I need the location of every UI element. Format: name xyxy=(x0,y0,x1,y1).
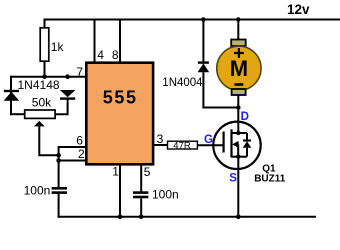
op-amp U1 555 timer body xyxy=(86,63,153,165)
svg-text:8: 8 xyxy=(112,48,119,62)
svg-text:100n: 100n xyxy=(152,188,179,202)
Q1 body diode xyxy=(243,133,252,157)
svg-text:5: 5 xyxy=(144,165,151,179)
resistor R1 1k xyxy=(40,28,49,61)
wire left branch vertical xyxy=(10,76,12,116)
capacitor C2 100n xyxy=(133,193,148,197)
node junction D2/row xyxy=(65,74,70,79)
node source stub junction xyxy=(236,155,240,159)
svg-text:1N4004: 1N4004 xyxy=(162,77,203,89)
transistor Q1 BUZ11 mosfet body circle xyxy=(213,122,260,169)
wire pin7 row horizontal xyxy=(10,76,86,78)
motor M1 bottom terminal xyxy=(232,89,246,95)
wire R1 bottom to node row xyxy=(44,61,46,76)
svg-text:1N4148: 1N4148 xyxy=(18,78,60,92)
node C2/rail junction xyxy=(139,214,144,219)
wire C2 bottom to ground rail xyxy=(140,198,142,216)
Q1 gate bar xyxy=(223,132,225,153)
svg-text:BUZ11: BUZ11 xyxy=(254,173,286,184)
svg-text:4: 4 xyxy=(97,48,104,62)
motor + mark xyxy=(234,48,244,58)
wire drain node to Q1 drain xyxy=(237,108,239,134)
motor M1 body xyxy=(217,46,261,90)
svg-text:1: 1 xyxy=(112,164,119,178)
wire rail to motor top xyxy=(237,20,239,41)
wire pin 6 xyxy=(59,146,86,148)
Q1 source stub xyxy=(232,156,248,158)
node rail/motor junction xyxy=(236,17,241,22)
node pin1/rail junction xyxy=(118,214,123,219)
wire C1 bottom to ground rail xyxy=(58,194,60,218)
wire D3 branch vertical top xyxy=(202,20,204,63)
svg-text:2: 2 xyxy=(78,147,85,161)
node rail/D3 junction xyxy=(201,17,206,22)
Q1 substrate arrow xyxy=(232,141,238,157)
capacitor C1 100n xyxy=(52,188,67,192)
svg-text:3: 3 xyxy=(157,132,164,146)
wire pin 5 to C2 xyxy=(140,164,142,191)
resistor R2 47R xyxy=(168,141,198,149)
wire D2 bottom to pot right lead xyxy=(56,99,68,115)
wire 0V bottom rail xyxy=(58,216,316,218)
wire pin 4 xyxy=(94,20,96,63)
svg-text:G: G xyxy=(204,134,213,146)
wire pin 3 to R2 xyxy=(154,144,168,146)
svg-text:7: 7 xyxy=(76,65,83,79)
node drain stub junction xyxy=(236,131,240,135)
svg-text:555: 555 xyxy=(103,87,138,107)
diode D3 1N4004 (points up) xyxy=(198,63,210,73)
node wiper junction xyxy=(56,153,61,158)
wire D3 bottom to drain node xyxy=(203,72,238,107)
motor M1 top terminal xyxy=(231,40,246,47)
wire pin 8 xyxy=(119,20,121,63)
wire pin 1 to ground xyxy=(119,164,121,216)
wire R2 to gate xyxy=(198,144,224,146)
svg-text:50k: 50k xyxy=(32,96,52,110)
Q1 channel bar xyxy=(230,129,232,157)
pot wiper arrow xyxy=(34,121,45,127)
svg-text:M: M xyxy=(230,56,248,81)
diode D2 1N4148 (points down) xyxy=(60,90,76,99)
Q1 drain stub xyxy=(232,132,248,134)
motor - mark xyxy=(235,83,244,86)
svg-text:1k: 1k xyxy=(51,40,65,54)
wire rail to R1 top xyxy=(44,20,46,29)
node pin2 junction xyxy=(56,158,61,163)
node drain/motor junction xyxy=(236,105,241,110)
wire +12V top rail xyxy=(44,19,340,21)
diode D1 1N4148 (points up) xyxy=(4,91,20,101)
svg-text:S: S xyxy=(229,173,237,185)
wire pot left lead xyxy=(10,113,24,115)
potentiometer VR1 50k body xyxy=(25,110,55,118)
svg-text:6: 6 xyxy=(76,133,83,147)
node junction R1/row xyxy=(42,74,47,79)
wire Q1 source to ground rail xyxy=(237,157,239,217)
node source/rail junction xyxy=(236,214,241,219)
svg-text:100n: 100n xyxy=(24,183,51,197)
svg-text:12v: 12v xyxy=(287,2,310,17)
svg-text:47R: 47R xyxy=(173,140,191,151)
wire pin 2 xyxy=(59,160,86,162)
wire motor bottom to drain node xyxy=(237,95,239,108)
wire wiper down and right xyxy=(39,126,58,156)
wire pin6/pin2/C1 vertical xyxy=(58,146,60,187)
